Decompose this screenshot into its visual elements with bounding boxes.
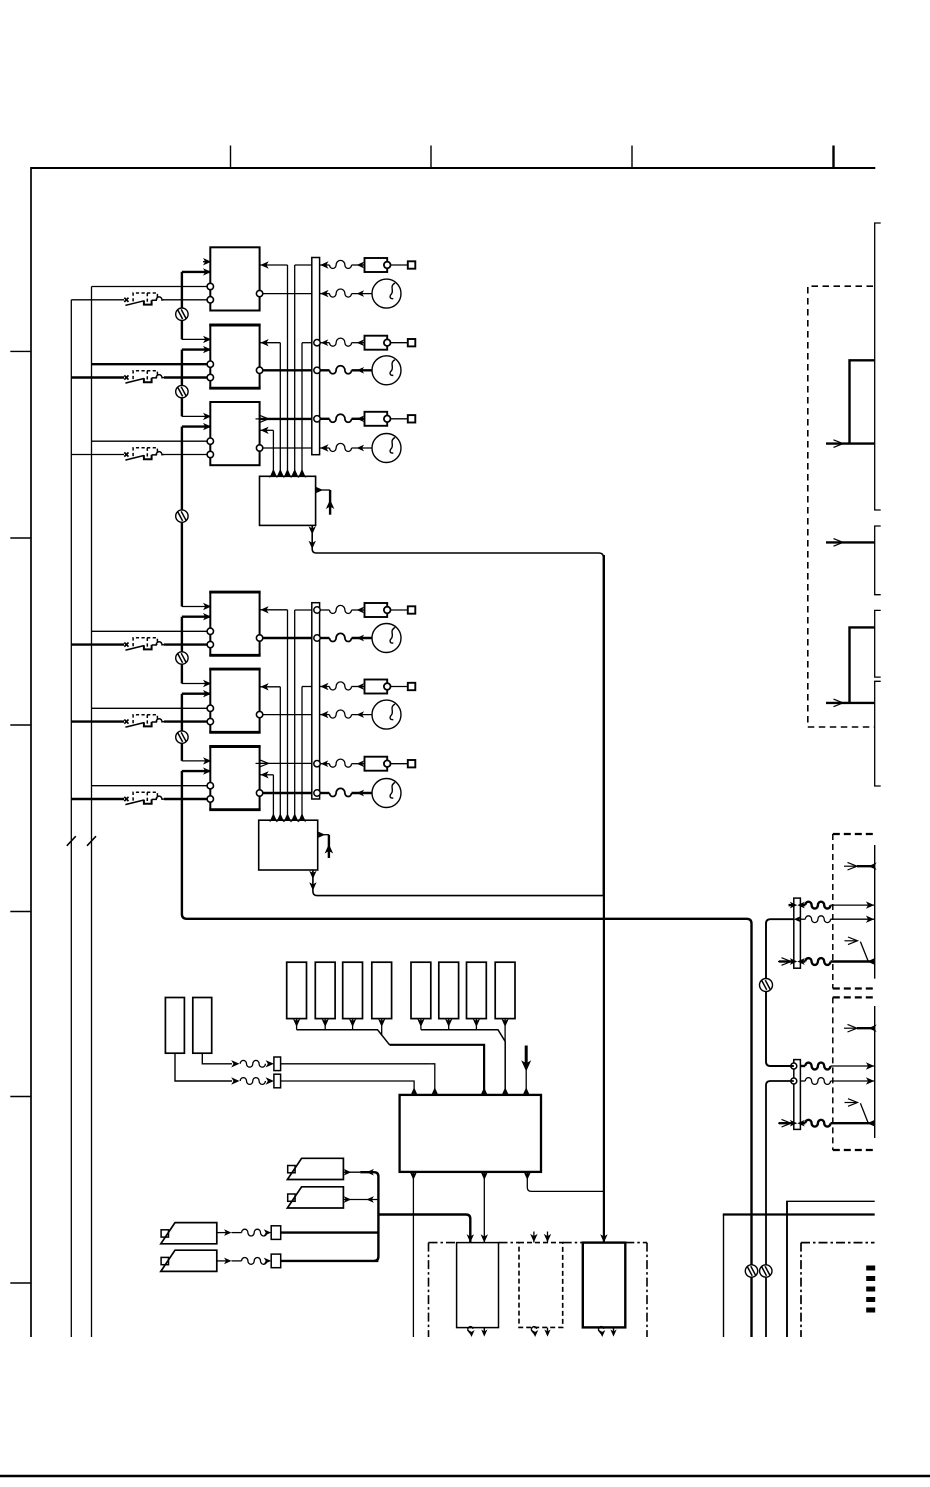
junction box 1 output wire down/right — [312, 525, 603, 895]
inline connector with terminal — [365, 680, 388, 694]
lamp bulb — [372, 434, 401, 463]
horn junction feed to relay box — [378, 1215, 470, 1243]
lamp bulb — [372, 700, 401, 729]
horn 4 harness — [217, 1260, 226, 1262]
block 6 right terminal to connector bar — [260, 792, 312, 794]
inline connector L2 — [274, 1057, 281, 1071]
relay box 1 — [457, 1243, 499, 1328]
block 5 right terminal to connector bar — [260, 714, 312, 716]
harness coil — [330, 443, 352, 451]
harness row 1 — [789, 904, 794, 906]
fuse bus A to control unit — [297, 1030, 390, 1045]
lamp bulb — [372, 279, 401, 308]
bus v4 feed to connector bar row 1 — [295, 264, 312, 266]
horn 2 connector arrows — [343, 1199, 378, 1201]
wire: cluster feed vertical x=766 lower — [766, 1081, 794, 1337]
dash-dot enclosure bottom right — [800, 1243, 802, 1337]
flasher/relay unit block 6 — [210, 747, 259, 810]
inline connector with terminal — [365, 757, 388, 771]
inline connector horn 3 — [271, 1226, 281, 1240]
inline connector with terminal — [365, 336, 388, 350]
bus vertical drop for block 2 — [279, 343, 281, 477]
block 6 right input arrow from bus v1 — [260, 774, 274, 776]
off-page component bracket C — [875, 610, 881, 677]
harness coil — [330, 260, 352, 268]
block 3 right terminal to connector bar — [260, 447, 312, 449]
sensor L1 wire — [175, 1053, 232, 1081]
harness row group2 row3 — [320, 683, 328, 690]
inline connector with terminal — [365, 412, 388, 426]
control unit bottom output 2 — [483, 1172, 485, 1243]
wiper arrow — [860, 942, 868, 962]
bus vertical v1 drop for block 6 — [272, 775, 274, 820]
horn/sender 2 — [288, 1194, 295, 1201]
sensor L2 wire — [202, 1053, 232, 1064]
block 1 left input arrow 2 (power) — [182, 271, 210, 273]
inline connector with terminal — [365, 603, 388, 617]
block 2 right input arrow from bus — [260, 342, 281, 344]
main control unit block — [400, 1095, 541, 1172]
harness row group2 row4 — [320, 711, 328, 718]
shield circle on power feed — [176, 652, 188, 664]
bus vertical v1 drop for block 3 — [272, 430, 274, 476]
bus vertical drop for block 5 — [279, 687, 281, 820]
connector bar group 2 — [312, 603, 320, 799]
lamp bulb — [372, 779, 401, 808]
harness coil — [330, 710, 352, 718]
fuse strip output stubs — [296, 1019, 298, 1030]
harness cluster 1 connector bar — [794, 898, 801, 968]
block 6 left input arrow 2 (power) — [182, 770, 210, 772]
relay box 2 (optional, dashed) — [519, 1243, 563, 1328]
flasher/relay unit block 1 — [210, 247, 259, 310]
harness coil — [330, 633, 352, 641]
off-page component bracket B — [875, 526, 881, 595]
wire: left bus A (switch returns) — [70, 300, 72, 1337]
ground hooks below boxes — [468, 1327, 473, 1335]
harness coil — [330, 366, 352, 374]
power feed wire segments with shield circles, x=182 — [181, 272, 183, 340]
block 4 left input arrow 1 — [182, 606, 210, 608]
block 4 right terminal to connector bar — [260, 637, 312, 639]
block 3 left input arrow 2 (power) — [182, 425, 210, 427]
left edge tick marks — [10, 350, 31, 352]
flasher/relay unit block 4 — [210, 592, 259, 655]
junction box 2 output wire down/right — [313, 870, 604, 896]
dashed unit outline top right — [808, 286, 875, 727]
inline connector horn 4 — [271, 1254, 281, 1268]
harness row group2 row2 — [314, 635, 320, 641]
dashed unit outline — [833, 833, 875, 835]
mating connector arrows — [848, 1024, 858, 1032]
block 1 right input arrow from bus — [260, 264, 288, 266]
wire: left bus B (sensor returns) — [91, 287, 93, 1338]
block 5 right input arrow from bus — [260, 686, 281, 688]
harness coil — [330, 759, 352, 767]
shield circles bottom right pair — [745, 1265, 757, 1277]
harness row group2 row6 — [314, 790, 320, 796]
horn 1 connector arrows — [343, 1171, 360, 1173]
thick dashed clipped edge — [866, 1266, 875, 1271]
shield circle on power feed — [176, 510, 188, 522]
harness row group1 row5 — [314, 416, 320, 422]
junction box 2 right pigtail — [318, 834, 329, 836]
harness row 3 (sensor with wiper) — [779, 960, 794, 962]
block 3 right input arrow from bus v1 — [260, 429, 274, 431]
horn/sender 3 — [161, 1230, 168, 1237]
horn/sender 1 — [288, 1166, 295, 1173]
lamp bulb — [372, 356, 401, 385]
harness row group1 row4 — [314, 367, 320, 373]
harness coil — [330, 289, 352, 297]
relay box 3 (ECU) — [583, 1243, 626, 1328]
junction box 1 right pigtail — [316, 489, 331, 491]
shield circle on power feed — [176, 385, 188, 397]
bottom right L-wire 2 — [786, 1201, 788, 1337]
page border top — [31, 167, 875, 169]
harness row group2 row1 — [314, 607, 320, 613]
block 5 left input arrow 2 (power) — [182, 693, 210, 695]
inline connector L1 — [274, 1074, 281, 1088]
off-page component bracket D — [875, 681, 881, 786]
block 6 left input arrow 1 — [182, 760, 210, 762]
harness row group1 row6 — [320, 444, 328, 451]
block 2 left input arrow 1 — [182, 338, 210, 340]
dashed unit outline — [833, 996, 875, 998]
block 2 right terminal to connector bar — [260, 369, 312, 371]
termination square — [408, 339, 416, 346]
flasher/relay unit block 3 — [210, 402, 259, 465]
termination square — [408, 261, 416, 268]
control unit bottom output 1 — [412, 1172, 414, 1337]
page border left — [30, 167, 32, 1337]
block 3 kill switch — [124, 452, 128, 456]
off-page power drop arrow — [525, 1046, 528, 1065]
block 4 right input arrow from bus — [260, 609, 288, 611]
switch contact L2 in bracket B — [826, 541, 875, 543]
bus vertical drop for block 4 — [287, 610, 289, 820]
harness row 2 — [794, 916, 801, 923]
wiper arrow — [860, 1103, 868, 1123]
block 3 left terminal circles — [92, 440, 208, 442]
harness coil — [330, 605, 352, 613]
coil L1 — [240, 1078, 265, 1085]
wire: cluster feed vertical x=766 upper — [766, 919, 794, 1066]
junction box group 2 — [259, 820, 318, 870]
block 5 left input arrow 1 — [182, 683, 210, 685]
block 2 left terminal circles — [92, 363, 208, 365]
unit edge line — [874, 845, 876, 979]
harness coil — [330, 788, 352, 796]
harness coil — [330, 414, 352, 422]
block 5 left terminal circles — [92, 707, 208, 709]
block 2 left input arrow 2 (power) — [182, 348, 210, 350]
switch contact L1 in bracket A — [850, 360, 875, 443]
block 6 left terminal circles — [92, 785, 208, 787]
harness cluster 2 connector bar — [794, 1060, 801, 1130]
dash-dot equipment enclosure — [428, 1243, 430, 1337]
harness coil — [330, 338, 352, 346]
horn/sender 4 — [161, 1257, 168, 1264]
fuse bus B to control unit — [421, 1030, 505, 1095]
block 1 right terminal to connector bar — [260, 293, 312, 295]
connector bar group 1 — [312, 258, 320, 455]
control unit bottom output 3 — [527, 1172, 604, 1192]
block 1 left terminal circles — [92, 286, 208, 288]
block 2 kill switch — [124, 375, 128, 379]
bus vertical drop for block 1 — [287, 265, 289, 476]
block 3 right output arrow (thick) — [260, 418, 312, 420]
block 4 kill switch — [124, 643, 128, 647]
block 3 left input arrow 1 — [182, 415, 210, 417]
termination square — [408, 606, 416, 613]
horn 3 harness — [217, 1232, 226, 1234]
bus v5 feed to connector bar row 3 — [302, 342, 312, 344]
flasher/relay unit block 2 — [210, 325, 259, 388]
harness coil — [330, 682, 352, 690]
block 1 left input arrow 1 — [203, 261, 210, 263]
top edge tick marks — [230, 146, 232, 169]
harness row 3 (sensor with wiper) — [779, 1122, 794, 1124]
harness row group1 row1 — [320, 261, 328, 268]
termination square — [408, 415, 416, 422]
junction box group 1 — [260, 476, 316, 525]
block 4 left input arrow 2 (power) — [182, 616, 210, 618]
bus v4 feed to connector bar row 1 — [295, 609, 312, 611]
block 6 kill switch — [124, 797, 128, 801]
shield circle on power feed — [176, 731, 188, 743]
off-page component bracket A — [875, 223, 881, 510]
harness row 1 — [791, 1063, 797, 1069]
inline connector with terminal — [365, 258, 388, 272]
bottom right L-wire 1 — [723, 1215, 725, 1338]
fuse/diode strip rectangles — [287, 962, 307, 1018]
termination square — [408, 683, 416, 690]
block 1 kill switch — [124, 298, 128, 302]
coil L2 — [240, 1060, 265, 1067]
main feed vertical to ECU box 3 — [603, 555, 605, 1243]
power feed bottom run to right side — [182, 771, 752, 1337]
harness row group1 row3 — [314, 340, 320, 346]
harness row group1 row2 — [320, 290, 328, 297]
bus v5 feed to connector bar row 3 — [302, 686, 312, 688]
lamp bulb — [372, 624, 401, 653]
switch contact L3 in brackets C/D — [850, 627, 875, 703]
harness break slashes on bus A/B — [67, 836, 76, 846]
termination square — [408, 760, 416, 767]
mating connector arrows — [848, 862, 858, 870]
block 5 kill switch — [124, 720, 128, 724]
shield circle on cluster feed — [760, 979, 773, 992]
block 4 left terminal circles — [92, 630, 208, 632]
block 6 right output arrow (thick) — [260, 762, 312, 764]
bottom rule — [0, 1475, 930, 1478]
sensor rectangles left pair — [165, 998, 184, 1054]
shield circle on power feed — [176, 308, 188, 320]
flasher/relay unit block 5 — [210, 669, 259, 732]
harness row group2 row5 — [314, 761, 320, 767]
harness row 2 — [791, 1078, 797, 1084]
unit edge line — [874, 1006, 876, 1138]
